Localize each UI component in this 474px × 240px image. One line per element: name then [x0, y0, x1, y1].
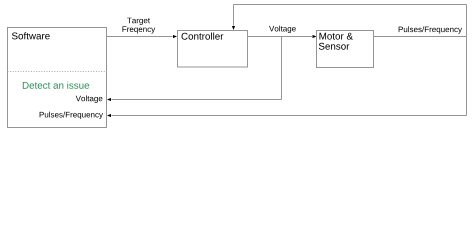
- wire: Software output to Controller input (carries Target Freqency): [107, 36, 173, 38]
- text Motor &: [320, 33, 353, 40]
- wire: Controller output to Motor & Sensor input (carries Voltage): [248, 36, 313, 38]
- wire: Voltage tap vertical drop from Controller-Motor wire: [281, 37, 283, 100]
- arrowhead into Software right edge (Voltage): [107, 98, 111, 101]
- wire: Voltage feedback into Software: [112, 99, 282, 101]
- block Controller: [178, 31, 248, 68]
- text Controller: [182, 33, 224, 40]
- label Pulses/Frequency (top): [399, 26, 462, 33]
- label Voltage (inside Software): [76, 95, 103, 102]
- wire: Pulses/Frequency feedback into Software: [112, 115, 467, 117]
- wire: Motor & Sensor output going right (Pulses/Frequency): [374, 36, 467, 38]
- label Target Freqency line2: [122, 26, 155, 33]
- wire: top horizontal feedback run to Controller: [234, 4, 467, 6]
- label Target Freqency line1: [127, 18, 150, 25]
- block Software: [8, 28, 107, 128]
- wire: right-side vertical riser: [466, 5, 468, 116]
- label Pulses/Frequency (inside Software): [40, 112, 103, 119]
- arrowhead into Motor & Sensor left edge: [313, 35, 317, 38]
- arrowhead into Controller left edge: [173, 35, 177, 38]
- arrowhead into Software right edge (Pulses/Frequency): [107, 114, 111, 117]
- text Software: [12, 32, 50, 39]
- block Motor & Sensor: [317, 31, 374, 68]
- text Sensor: [319, 43, 349, 50]
- label Detect an issue: [23, 82, 89, 89]
- separator: dotted divider inside Software block: [8, 71, 107, 73]
- label Voltage (top): [269, 26, 296, 33]
- arrowhead into Controller top edge: [232, 26, 235, 30]
- wire: vertical drop into Controller top: [233, 5, 235, 26]
